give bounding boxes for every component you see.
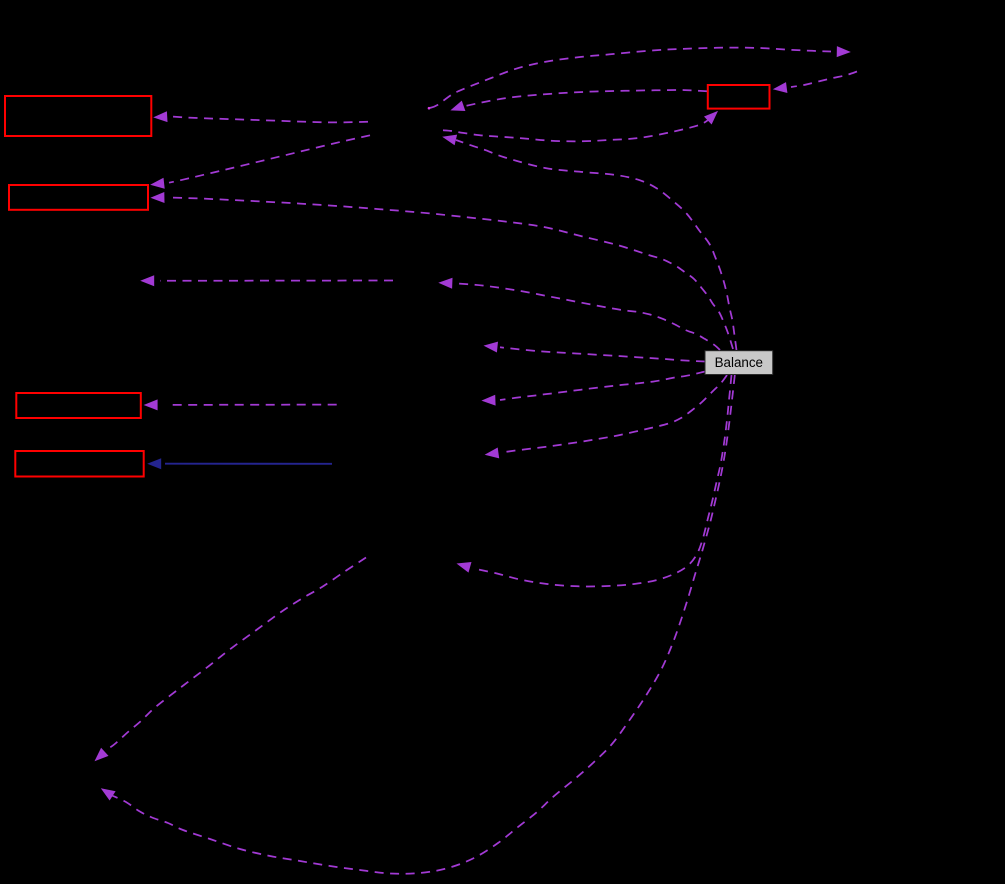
edge Balance to D sweep: [101, 375, 735, 874]
edge Balance to U: [484, 342, 706, 362]
node4 red box: [15, 451, 143, 477]
edge B to node5: [773, 72, 857, 94]
edge Z to node2 upper: [150, 135, 370, 188]
edge Balance to S: [485, 375, 727, 458]
svg-text:Balance: Balance: [715, 355, 763, 370]
edge C to D: [95, 558, 367, 762]
edge blue to node4: [147, 458, 332, 469]
node1 red box top-left: [5, 96, 151, 136]
edge A start dot: [428, 107, 431, 110]
edge Balance to node2 lower: [150, 192, 733, 349]
edge Z to node5: [443, 111, 718, 141]
edge Balance to C: [457, 375, 732, 586]
edge Balance to V: [481, 372, 705, 406]
edge Balance to Z: [442, 135, 736, 350]
node Balance: [705, 351, 773, 375]
edge W to left: [140, 275, 393, 286]
node5 red box top-right: [708, 85, 770, 109]
edge Balance to W: [438, 278, 720, 350]
edge Z to node1: [153, 111, 368, 122]
node2 red box: [9, 185, 148, 210]
edge V to node3: [144, 399, 337, 410]
edge node5 to A: [450, 90, 707, 111]
edge A to B: [430, 46, 851, 108]
node3 red box: [16, 393, 141, 418]
